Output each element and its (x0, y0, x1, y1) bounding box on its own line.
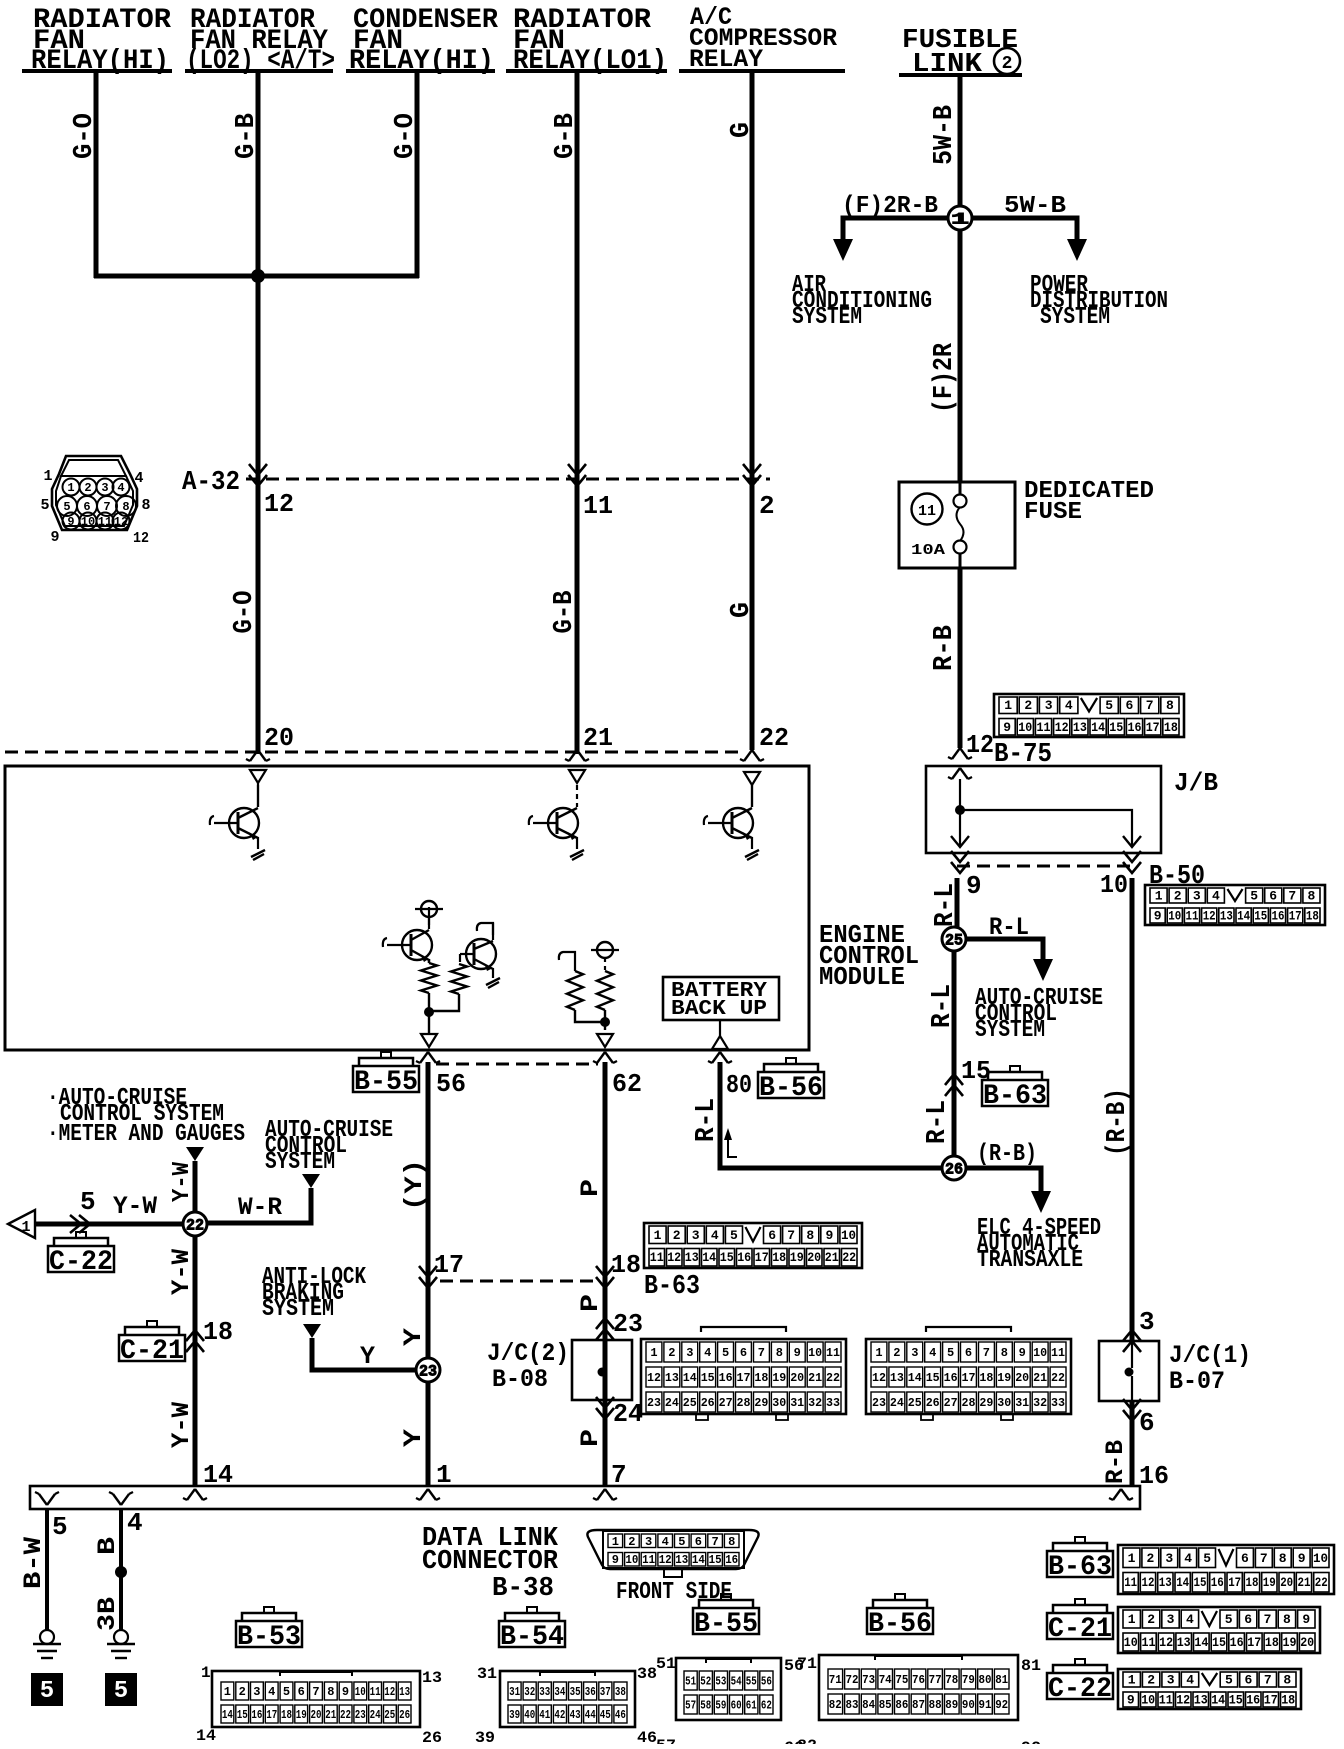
svg-text:79: 79 (962, 1673, 975, 1687)
svg-text:90: 90 (962, 1698, 975, 1712)
ground symbol for wire B-W (40, 1630, 54, 1644)
branch wire 5W-B to power distribution system (972, 218, 1077, 244)
svg-text:6: 6 (1125, 698, 1133, 713)
svg-text:7: 7 (983, 1346, 990, 1360)
svg-text:23: 23 (872, 1396, 886, 1410)
svg-text:77: 77 (929, 1673, 942, 1687)
svg-text:15: 15 (720, 1250, 734, 1265)
svg-text:12: 12 (872, 1371, 886, 1385)
svg-text:4: 4 (1186, 1612, 1194, 1627)
svg-text:5: 5 (114, 1678, 128, 1705)
wire Y from anti-lock arrow to node 23 (312, 1338, 416, 1370)
svg-text:5: 5 (1203, 1551, 1211, 1566)
ground reference box 5 left (32, 1674, 62, 1705)
svg-text:15: 15 (237, 1708, 248, 1722)
connector B-56 tag (786, 1058, 796, 1064)
svg-text:12: 12 (966, 730, 994, 760)
anti-lock braking system text (262, 1264, 366, 1323)
svg-text:14: 14 (1211, 1693, 1225, 1708)
svg-text:24: 24 (665, 1396, 679, 1410)
svg-text:B-54: B-54 (500, 1622, 564, 1653)
J/C(1) B-07 label (1169, 1341, 1251, 1396)
svg-text:SYSTEM: SYSTEM (1040, 304, 1110, 331)
svg-text:14: 14 (1237, 909, 1250, 924)
svg-text:J/C(2): J/C(2) (487, 1339, 569, 1368)
ELC 4-speed automatic transaxle text (977, 1215, 1101, 1274)
svg-text:C-21: C-21 (120, 1336, 184, 1367)
svg-text:62: 62 (612, 1069, 642, 1099)
svg-text:5: 5 (283, 1685, 290, 1699)
svg-text:J/B: J/B (1174, 768, 1218, 798)
node 23 junction (416, 1358, 440, 1382)
corner direction arrow (724, 1128, 737, 1157)
svg-text:5W-B: 5W-B (930, 105, 960, 165)
svg-text:Y: Y (399, 1328, 428, 1346)
connector C-22 tag right (1075, 1659, 1085, 1665)
svg-text:37: 37 (600, 1685, 611, 1699)
svg-text:21: 21 (825, 1250, 839, 1265)
svg-text:11: 11 (583, 491, 613, 521)
ECM internal junction dot at pin 62 (600, 1017, 610, 1027)
svg-text:9: 9 (342, 1685, 349, 1699)
svg-text:71: 71 (797, 1655, 817, 1673)
svg-text:3: 3 (101, 481, 108, 495)
svg-text:11: 11 (1186, 909, 1199, 924)
condenser fan relay (HI) (346, 5, 498, 77)
svg-text:30: 30 (772, 1396, 786, 1410)
connector A-32 12-pin face icon (40, 456, 150, 547)
pin 56 fork below ECM (420, 1052, 428, 1063)
connector B-53 tag (264, 1607, 274, 1613)
J/B internal wire down to pin 9 (959, 810, 961, 845)
svg-text:91: 91 (979, 1698, 992, 1712)
dashed connector line pin 56 to 62 (436, 1063, 598, 1066)
svg-text:5W-B: 5W-B (1004, 193, 1066, 220)
svg-text:18: 18 (203, 1317, 233, 1347)
svg-text:2: 2 (1147, 1673, 1155, 1688)
svg-text:4: 4 (711, 1228, 719, 1243)
svg-text:3B: 3B (93, 1597, 122, 1631)
svg-text:G-B: G-B (550, 591, 580, 634)
svg-text:78: 78 (945, 1673, 958, 1687)
svg-text:26: 26 (422, 1729, 442, 1744)
dedicated fuse box (899, 482, 1015, 568)
svg-text:9: 9 (612, 1553, 619, 1567)
svg-text:10: 10 (1100, 870, 1128, 900)
wire B-W to ground (45, 1509, 49, 1631)
pin 21 fork (569, 750, 577, 761)
ECM top connector dashed line (5, 751, 745, 754)
arrowhead to air conditioning system (833, 239, 853, 261)
svg-text:16: 16 (1230, 1635, 1244, 1650)
svg-text:25: 25 (945, 932, 963, 950)
ECM driver transistor for pin 20 (210, 770, 266, 860)
svg-text:4: 4 (704, 1346, 711, 1360)
svg-text:G-B: G-B (232, 113, 262, 159)
svg-text:18: 18 (1281, 1693, 1295, 1708)
junction connector J/C(2) B-08 box (572, 1340, 632, 1400)
auto-cruise control system text (975, 985, 1103, 1044)
svg-text:TRANSAXLE: TRANSAXLE (977, 1247, 1083, 1274)
ECM internal transistor T2 (460, 923, 500, 988)
wire G-O from radiator fan relay HI (94, 71, 99, 278)
svg-text:24: 24 (370, 1708, 381, 1722)
svg-text:8: 8 (1307, 889, 1315, 904)
svg-text:C-22: C-22 (49, 1247, 113, 1278)
svg-text:2: 2 (1024, 698, 1032, 713)
svg-text:B-53: B-53 (237, 1622, 301, 1653)
node 22 junction (183, 1212, 207, 1236)
svg-text:22: 22 (1315, 1575, 1328, 1590)
svg-text:9: 9 (794, 1346, 801, 1360)
node 1 junction circle (948, 206, 972, 230)
svg-text:CONNECTOR: CONNECTOR (422, 1547, 559, 1577)
svg-text:9: 9 (1302, 1612, 1310, 1627)
svg-text:SYSTEM: SYSTEM (262, 1296, 334, 1323)
svg-text:28: 28 (962, 1396, 976, 1410)
pin 12 fork at B-75 (952, 748, 960, 759)
svg-text:4: 4 (1212, 889, 1220, 904)
svg-text:10: 10 (808, 1346, 822, 1360)
svg-text:31: 31 (1015, 1396, 1029, 1410)
svg-text:Y-W: Y-W (167, 1249, 196, 1295)
svg-text:3: 3 (1167, 1673, 1175, 1688)
svg-text:16: 16 (725, 1553, 738, 1567)
pin 18 chevron (186, 1330, 204, 1341)
svg-text:32: 32 (1033, 1396, 1047, 1410)
svg-text:6: 6 (695, 1535, 702, 1549)
arrowhead auto-cruise (1033, 959, 1053, 981)
svg-text:6: 6 (1241, 1551, 1249, 1566)
pin 22 fork (744, 750, 752, 761)
pin 7 fork inside bus (597, 1489, 605, 1500)
svg-text:41: 41 (539, 1708, 550, 1722)
svg-text:W-R: W-R (238, 1193, 282, 1222)
arrow to auto-cruise control system (302, 1174, 320, 1188)
pin 15 chevron (945, 1074, 963, 1085)
radiator fan relay (HI) (22, 5, 172, 77)
svg-text:1: 1 (224, 1685, 231, 1699)
ECM driver transistor for pin 22 (704, 772, 760, 860)
dedicated fuse text (1024, 478, 1154, 526)
svg-text:R-L: R-L (923, 1100, 953, 1144)
svg-text:13: 13 (1177, 1635, 1191, 1650)
svg-text:1: 1 (1128, 1551, 1136, 1566)
svg-text:4: 4 (662, 1535, 669, 1549)
svg-text:26: 26 (399, 1708, 410, 1722)
svg-text:18: 18 (611, 1250, 641, 1280)
svg-text:33: 33 (826, 1396, 840, 1410)
svg-text:12: 12 (114, 515, 128, 529)
svg-text:7: 7 (1146, 698, 1154, 713)
svg-text:22: 22 (759, 723, 789, 753)
svg-text:22: 22 (1051, 1371, 1065, 1385)
svg-text:5: 5 (722, 1346, 729, 1360)
wire B to ground (119, 1509, 123, 1631)
wire W-R from node 22 to auto-cruise arrow (207, 1188, 311, 1223)
pin 3 chevron on R-B wire (1123, 1330, 1141, 1341)
svg-text:R-L: R-L (928, 984, 958, 1028)
svg-text:8: 8 (1283, 1612, 1291, 1627)
svg-text:8: 8 (728, 1535, 735, 1549)
svg-text:6: 6 (768, 1228, 776, 1243)
battery back up box (663, 977, 779, 1021)
arrowhead ELC transaxle (1031, 1191, 1051, 1213)
power distribution system text (1030, 272, 1168, 331)
svg-text:75: 75 (895, 1673, 908, 1687)
junction dot (251, 269, 265, 283)
svg-text:38: 38 (637, 1665, 657, 1683)
svg-text:3: 3 (1165, 1551, 1173, 1566)
svg-text:21: 21 (325, 1708, 336, 1722)
svg-text:18: 18 (754, 1371, 768, 1385)
svg-text:14: 14 (1176, 1575, 1189, 1590)
svg-text:88: 88 (929, 1698, 942, 1712)
connector B-63 tag right (1075, 1537, 1085, 1543)
svg-text:22: 22 (340, 1708, 351, 1722)
wire R-B from fuse to B-75 (958, 568, 963, 748)
svg-text:G-O: G-O (391, 113, 421, 159)
svg-text:10: 10 (1313, 1551, 1328, 1566)
svg-text:7: 7 (758, 1346, 765, 1360)
J/B exit chevron pin 9 (951, 836, 969, 847)
svg-text:6: 6 (1244, 1673, 1252, 1688)
svg-text:31: 31 (477, 1665, 497, 1683)
svg-text:18: 18 (1246, 1575, 1259, 1590)
svg-text:6: 6 (1139, 1408, 1155, 1438)
svg-text:Y: Y (399, 1429, 428, 1447)
svg-text:G: G (727, 602, 757, 618)
svg-text:9: 9 (1154, 909, 1162, 924)
svg-text:7: 7 (711, 1535, 718, 1549)
svg-text:17: 17 (434, 1250, 464, 1280)
svg-text:G-B: G-B (551, 113, 581, 159)
svg-text:14: 14 (908, 1371, 922, 1385)
svg-text:86: 86 (895, 1698, 908, 1712)
svg-text:B-56: B-56 (759, 1073, 823, 1104)
svg-text:2: 2 (84, 481, 91, 495)
svg-text:14: 14 (1194, 1635, 1208, 1650)
svg-text:P: P (576, 1179, 605, 1197)
J/B internal wire to pin 10 (960, 810, 1132, 845)
svg-text:11: 11 (642, 1553, 655, 1567)
svg-text:9: 9 (1003, 720, 1011, 735)
arrow to anti-lock braking system (303, 1324, 321, 1338)
svg-text:2: 2 (759, 491, 775, 521)
svg-text:20: 20 (264, 723, 294, 753)
svg-text:7: 7 (1264, 1612, 1272, 1627)
svg-text:7: 7 (312, 1685, 319, 1699)
svg-text:21: 21 (583, 723, 613, 753)
svg-text:12: 12 (667, 1250, 681, 1265)
arrow to auto-cruise/meter systems (186, 1147, 204, 1161)
svg-text:9: 9 (67, 515, 74, 529)
wire G from A/C compressor relay (750, 71, 755, 750)
svg-text:83: 83 (846, 1698, 859, 1712)
radiator fan relay (LO1) (506, 5, 667, 77)
pin 2 chevron at A-32 (743, 464, 761, 475)
pin 1 fork inside bus (420, 1489, 428, 1500)
svg-text:24: 24 (890, 1396, 904, 1410)
svg-text:8: 8 (141, 497, 150, 514)
connector C-22 tag (76, 1232, 86, 1238)
wire R-L pin 9 to node 25 (955, 878, 960, 928)
svg-text:1: 1 (875, 1346, 882, 1360)
svg-text:17: 17 (737, 1371, 751, 1385)
svg-text:21: 21 (1298, 1575, 1311, 1590)
svg-text:14: 14 (702, 1250, 716, 1265)
svg-text:29: 29 (979, 1396, 993, 1410)
svg-text:8: 8 (1166, 698, 1174, 713)
svg-text:10: 10 (1124, 1635, 1138, 1650)
svg-text:4: 4 (117, 481, 124, 495)
svg-text:14: 14 (692, 1553, 705, 1567)
svg-text:1: 1 (654, 1228, 662, 1243)
svg-text:13: 13 (399, 1685, 410, 1699)
svg-text:20: 20 (1300, 1635, 1314, 1650)
svg-text:8: 8 (1279, 1551, 1287, 1566)
svg-text:51: 51 (685, 1675, 696, 1689)
pin 14 fork inside bus (187, 1489, 195, 1500)
svg-text:16: 16 (1128, 720, 1142, 735)
ECM internal right resistor with power symbol (591, 942, 619, 1030)
svg-text:74: 74 (879, 1673, 892, 1687)
svg-text:92: 92 (995, 1698, 1008, 1712)
svg-text:16: 16 (1246, 1693, 1260, 1708)
svg-text:61: 61 (746, 1699, 757, 1713)
ECM internal resistor pair at pin 62: left resistor hook (559, 952, 603, 1022)
connector B-63 pinout grid mid (644, 1223, 862, 1268)
junction connector pinout grid 33-pin left (B-08) (701, 1327, 786, 1332)
ECM internal circuit at pin 56: power symbol (421, 901, 437, 917)
connector B-56 tag (895, 1594, 905, 1600)
svg-text:72: 72 (846, 1673, 859, 1687)
svg-text:2: 2 (1174, 889, 1182, 904)
node 25 junction (942, 927, 966, 951)
svg-text:7: 7 (1260, 1551, 1268, 1566)
svg-text:38: 38 (615, 1685, 626, 1699)
junction bar joining relay wires (94, 274, 419, 279)
svg-text:17: 17 (1228, 1575, 1241, 1590)
svg-text:13: 13 (665, 1371, 679, 1385)
data link connector B-38 face icon (587, 1530, 758, 1577)
svg-text:17: 17 (1247, 1635, 1261, 1650)
svg-text:5: 5 (80, 1187, 96, 1217)
svg-text:3: 3 (686, 1346, 693, 1360)
svg-text:B-55: B-55 (354, 1067, 418, 1098)
svg-text:20: 20 (1280, 1575, 1293, 1590)
svg-text:80: 80 (726, 1070, 752, 1100)
pin 62 output triangle (597, 1034, 613, 1047)
svg-text:21: 21 (1033, 1371, 1047, 1385)
branch (R-B) to ELC transaxle (966, 1168, 1041, 1194)
svg-text:2: 2 (893, 1346, 900, 1360)
svg-text:19: 19 (997, 1371, 1011, 1385)
junction block J/B box (926, 766, 1161, 853)
svg-text:6: 6 (965, 1346, 972, 1360)
svg-text:5: 5 (947, 1346, 954, 1360)
svg-text:21: 21 (808, 1371, 822, 1385)
svg-text:16: 16 (944, 1371, 958, 1385)
svg-text:25: 25 (683, 1396, 697, 1410)
connector B-54 tag (527, 1607, 537, 1613)
svg-text:42: 42 (554, 1708, 565, 1722)
svg-text:14: 14 (222, 1708, 233, 1722)
svg-text:9: 9 (966, 871, 982, 901)
svg-text:56: 56 (761, 1675, 772, 1689)
svg-text:26: 26 (926, 1396, 940, 1410)
svg-text:MODULE: MODULE (819, 962, 905, 992)
svg-text:20: 20 (311, 1708, 322, 1722)
svg-text:56: 56 (436, 1069, 466, 1099)
J/B internal junction dot (955, 805, 965, 815)
splice dot on wire 4 (115, 1566, 127, 1578)
connector B-55 pinout grid (676, 1658, 781, 1720)
svg-text:57: 57 (656, 1737, 676, 1744)
B-56 corner pin labels (797, 1655, 1041, 1749)
svg-text:46: 46 (637, 1729, 657, 1744)
svg-text:39: 39 (475, 1729, 495, 1744)
svg-text:22: 22 (842, 1250, 856, 1265)
svg-text:23: 23 (355, 1708, 366, 1722)
connector B-55 tag (721, 1594, 731, 1600)
svg-text:3: 3 (645, 1535, 652, 1549)
connector B-75 pinout grid (994, 694, 1184, 737)
svg-text:24: 24 (613, 1399, 643, 1429)
pin 56 output triangle (421, 1034, 437, 1047)
pin 18 chevron on P wire (596, 1266, 614, 1277)
connector B-55 tag (381, 1052, 391, 1058)
svg-text:20: 20 (807, 1250, 821, 1265)
wire G-O from condenser fan relay (415, 71, 420, 278)
svg-text:3: 3 (1045, 698, 1053, 713)
svg-text:14: 14 (683, 1371, 697, 1385)
svg-text:3: 3 (692, 1228, 700, 1243)
svg-text:27: 27 (944, 1396, 958, 1410)
pin 4 fork inside bus (113, 1494, 121, 1505)
svg-text:45: 45 (600, 1708, 611, 1722)
junction connector J/C(1) B-07 box (1099, 1341, 1159, 1401)
svg-text:SYSTEM: SYSTEM (265, 1149, 335, 1176)
data link connector bus bar B-38 (30, 1486, 1140, 1509)
pin 20 fork (250, 750, 258, 761)
svg-text:11: 11 (650, 1250, 664, 1265)
svg-text:12: 12 (1203, 909, 1216, 924)
svg-text:9: 9 (1127, 1693, 1135, 1708)
connector C-21 pinout grid (1118, 1607, 1320, 1653)
svg-text:15: 15 (1194, 1575, 1207, 1590)
svg-text:Y-W: Y-W (113, 1192, 157, 1221)
svg-text:B: B (93, 1537, 122, 1555)
svg-text:55: 55 (746, 1675, 757, 1689)
junction connector pinout grid 33-pin right (B-07) (926, 1327, 1011, 1332)
pin 23 chevron (596, 1318, 614, 1329)
svg-text:13: 13 (1194, 1693, 1208, 1708)
svg-text:Y-W: Y-W (169, 1161, 196, 1202)
svg-text:18: 18 (1306, 909, 1319, 924)
svg-text:12: 12 (647, 1371, 661, 1385)
svg-text:2: 2 (1002, 54, 1013, 74)
svg-text:B-W: B-W (19, 1537, 48, 1589)
connector C-21 tag right (1075, 1599, 1085, 1605)
svg-text:10: 10 (1168, 909, 1181, 924)
svg-text:5: 5 (40, 497, 49, 514)
svg-text:4: 4 (1184, 1551, 1192, 1566)
svg-text:10: 10 (1033, 1346, 1047, 1360)
svg-text:17: 17 (1264, 1693, 1278, 1708)
ground reference box 5 right (106, 1674, 136, 1705)
svg-text:87: 87 (912, 1698, 925, 1712)
